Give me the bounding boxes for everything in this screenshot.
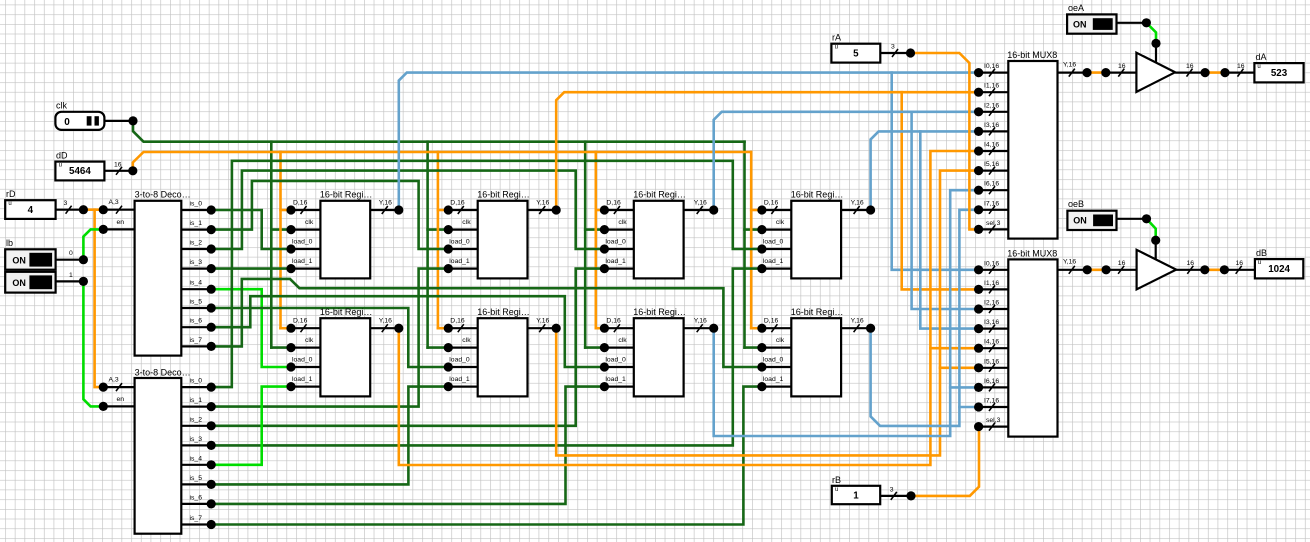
svg-text:load_0: load_0	[449, 239, 470, 246]
wire clk riser column 0	[271, 142, 291, 348]
svg-text:16: 16	[114, 161, 122, 168]
wire MUX2.Y to buffer B	[1058, 269, 1137, 271]
svg-text:u: u	[8, 201, 11, 207]
decoder1 pin stubs	[103, 210, 211, 347]
svg-text:D,16: D,16	[764, 200, 779, 207]
svg-text:load_1: load_1	[605, 258, 626, 265]
wire dD riser column 3	[751, 152, 762, 328]
register R2 16-bit row1 col2	[605, 190, 707, 279]
svg-text:is_1: is_1	[190, 220, 203, 227]
multiplexer U4 16-bit MUX8 bottom	[984, 248, 1076, 436]
register row2 col1 pin stubs	[448, 328, 556, 386]
svg-text:u: u	[1258, 260, 1261, 266]
svg-text:is_4: is_4	[190, 280, 203, 287]
svg-text:is_7: is_7	[190, 515, 203, 522]
svg-text:I3,16: I3,16	[984, 122, 999, 129]
svg-text:is_4: is_4	[190, 455, 203, 462]
svg-text:clk: clk	[462, 219, 471, 226]
svg-text:Y,16: Y,16	[536, 318, 549, 325]
svg-text:I6,16: I6,16	[984, 378, 999, 385]
register R6 16-bit row2 col2	[605, 307, 707, 396]
wire buffer B output to dB	[1176, 269, 1255, 271]
svg-text:rA: rA	[832, 33, 841, 43]
svg-text:16-bit Regi…: 16-bit Regi…	[477, 190, 530, 200]
wire rD 3-bit bus (orange)	[83, 210, 103, 387]
wire lb0 to decoder1 en (lime, value 1)	[83, 229, 103, 259]
register row2 col0 pin stubs	[291, 328, 399, 386]
svg-text:is_0: is_0	[190, 378, 203, 385]
wire R4.Y bus to MUX inputs I4	[399, 151, 979, 465]
svg-text:D,16: D,16	[293, 200, 308, 207]
svg-text:dA: dA	[1256, 52, 1267, 62]
svg-text:I1,16: I1,16	[984, 83, 999, 90]
svg-text:3: 3	[890, 486, 894, 493]
svg-text:clk: clk	[56, 101, 67, 111]
svg-text:Y,16: Y,16	[536, 200, 549, 207]
svg-text:I2,16: I2,16	[984, 102, 999, 109]
switch lb bit0 ON	[5, 238, 83, 270]
svg-text:sel,3: sel,3	[986, 220, 1001, 227]
svg-text:load_1: load_1	[292, 376, 313, 383]
svg-text:Y,16: Y,16	[694, 200, 707, 207]
input rB value 1	[832, 475, 911, 504]
svg-text:16-bit Regi…: 16-bit Regi…	[791, 190, 844, 200]
svg-text:rB: rB	[832, 475, 841, 485]
svg-text:clk: clk	[776, 219, 785, 226]
input dD value 5464	[55, 151, 132, 181]
wire is_6 dec2 to R6.load_1	[211, 387, 604, 504]
svg-text:I7,16: I7,16	[984, 398, 999, 405]
svg-text:u: u	[835, 45, 838, 51]
svg-text:Y,16: Y,16	[379, 200, 392, 207]
svg-text:D,16: D,16	[764, 318, 779, 325]
register row2 col2 pin stubs	[604, 328, 713, 386]
svg-text:Y,16: Y,16	[851, 200, 864, 207]
svg-text:16-bit Regi…: 16-bit Regi…	[477, 307, 530, 317]
svg-text:16-bit MUX8: 16-bit MUX8	[1007, 248, 1057, 258]
svg-text:load_0: load_0	[292, 357, 313, 364]
output dB value 1024	[1255, 248, 1303, 278]
svg-text:16-bit Regi…: 16-bit Regi…	[633, 307, 686, 317]
wire is_2 dec2 to R2.load_1	[211, 269, 604, 426]
svg-text:Y,16: Y,16	[379, 318, 392, 325]
svg-text:load_0: load_0	[763, 239, 784, 246]
svg-text:16: 16	[1236, 260, 1244, 267]
tri-state buffer B	[1118, 250, 1243, 290]
wire dD riser column 1	[438, 152, 448, 328]
svg-text:rD: rD	[6, 189, 16, 199]
svg-text:clk: clk	[618, 219, 627, 226]
svg-text:16-bit Regi…: 16-bit Regi…	[633, 190, 686, 200]
switch oeA ON	[1067, 3, 1116, 34]
svg-text:ON: ON	[1073, 19, 1087, 29]
svg-text:Y,16: Y,16	[694, 318, 707, 325]
switch lb bit1 ON	[5, 272, 83, 293]
svg-text:523: 523	[1271, 68, 1288, 79]
wire dD 16-bit bus (orange)	[133, 152, 751, 171]
svg-text:D,16: D,16	[450, 200, 465, 207]
wire is_1 dec2 to R1.load_1	[211, 269, 448, 407]
svg-text:dD: dD	[56, 151, 68, 161]
svg-text:D,16: D,16	[293, 318, 308, 325]
svg-text:Y,16: Y,16	[851, 318, 864, 325]
svg-text:5: 5	[853, 48, 859, 59]
wire dD riser column 2	[596, 152, 605, 328]
svg-text:5464: 5464	[69, 166, 91, 177]
svg-text:is_7: is_7	[190, 337, 203, 344]
wire is_2 dec1 to R2.load_0 via top bus	[211, 171, 604, 249]
svg-text:is_3: is_3	[190, 259, 203, 266]
svg-text:3-to-8 Deco…: 3-to-8 Deco…	[135, 367, 191, 377]
register row1 col1 pin stubs	[448, 210, 556, 269]
svg-text:is_1: is_1	[190, 397, 203, 404]
wire R1.Y bus to MUX inputs I1	[556, 92, 978, 289]
svg-text:I5,16: I5,16	[984, 161, 999, 168]
svg-text:16-bit Regi…: 16-bit Regi…	[320, 190, 373, 200]
wire clk bus (dark green, value 0)	[133, 121, 745, 142]
register R3 16-bit row1 col3	[763, 190, 864, 279]
svg-text:I1,16: I1,16	[984, 280, 999, 287]
MUX2 input pin stubs	[979, 270, 1009, 427]
svg-text:clk: clk	[776, 337, 785, 344]
svg-text:0: 0	[69, 250, 73, 257]
wire oeA to buffer A enable (lime)	[1117, 23, 1157, 64]
svg-text:load_0: load_0	[605, 357, 626, 364]
register R5 16-bit row2 col1	[449, 307, 549, 396]
input rD value 4	[5, 189, 83, 219]
decoder U1 3-to-8 top	[109, 190, 203, 356]
MUX1 input pin stubs	[979, 73, 1009, 230]
wire lb1 to decoder2 en (lime, value 1)	[83, 281, 103, 406]
svg-text:0: 0	[64, 117, 70, 128]
svg-text:is_3: is_3	[190, 436, 203, 443]
svg-text:load_0: load_0	[292, 239, 313, 246]
svg-text:is_5: is_5	[190, 299, 203, 306]
svg-text:I3,16: I3,16	[984, 319, 999, 326]
register R4 16-bit row2 col0	[292, 307, 392, 396]
wire is_7 dec1 to R7.load_0 via channel	[211, 279, 762, 367]
wire rB 3-bit to MUX2 sel (orange)	[911, 427, 979, 496]
svg-text:A,3: A,3	[109, 377, 119, 384]
register row1 col2 pin stubs	[604, 210, 713, 269]
svg-text:I0,16: I0,16	[984, 260, 999, 267]
wire rA 3-bit to MUX1 sel (orange)	[911, 53, 979, 229]
wire is_4 dec1 to R4.load_0 (lime, active)	[211, 289, 291, 367]
wire is_3 dec1 to R3.load_0 via top bus	[211, 161, 762, 269]
wire buffer A output to dA	[1175, 71, 1254, 73]
svg-text:Y,16: Y,16	[1063, 62, 1076, 69]
register R7 16-bit row2 col3	[763, 307, 864, 396]
input rA value 5	[831, 33, 910, 63]
wire is_0 dec1 to R0.load_0	[211, 210, 291, 249]
svg-text:ON: ON	[12, 278, 26, 288]
svg-text:clk: clk	[305, 337, 314, 344]
svg-text:A,3: A,3	[109, 199, 119, 206]
svg-text:I0,16: I0,16	[984, 63, 999, 70]
svg-text:16-bit MUX8: 16-bit MUX8	[1007, 50, 1057, 60]
wire dD riser column 0	[281, 152, 292, 328]
svg-text:I4,16: I4,16	[984, 142, 999, 149]
svg-text:I6,16: I6,16	[984, 181, 999, 188]
svg-text:3: 3	[64, 200, 68, 207]
wire R7.Y bus to MUX inputs I7	[871, 210, 979, 426]
wire R5.Y bus to MUX inputs I5	[556, 171, 978, 456]
svg-text:u: u	[835, 487, 838, 493]
wire clk riser column 2	[585, 142, 604, 348]
decoder2 pin stubs	[103, 387, 211, 524]
svg-text:sel,3: sel,3	[986, 417, 1001, 424]
wire is_0 dec2 to R0.load_1	[211, 269, 291, 388]
svg-text:1: 1	[853, 490, 859, 501]
output dA value 523	[1254, 52, 1303, 82]
svg-text:oeB: oeB	[1068, 199, 1084, 209]
svg-text:load_0: load_0	[763, 357, 784, 364]
svg-text:load_1: load_1	[449, 376, 470, 383]
svg-text:I2,16: I2,16	[984, 300, 999, 307]
wire is_4 dec2 to R4.load_1 (lime, active)	[211, 387, 291, 465]
decoder U2 3-to-8 bottom	[109, 367, 203, 533]
svg-text:load_1: load_1	[763, 258, 784, 265]
svg-text:is_6: is_6	[190, 494, 203, 501]
svg-text:is_2: is_2	[190, 240, 203, 247]
wire clk riser column 1	[428, 142, 449, 348]
svg-text:3-to-8 Deco…: 3-to-8 Deco…	[135, 190, 191, 200]
wire R0.Y bus to MUX inputs I0	[399, 73, 979, 270]
svg-text:1: 1	[69, 272, 73, 279]
wire is_5 dec2 to R5.load_1	[211, 387, 448, 485]
tri-state buffer A	[1118, 53, 1245, 92]
svg-text:D,16: D,16	[606, 318, 621, 325]
svg-text:3: 3	[891, 44, 895, 51]
switch oeB ON	[1067, 199, 1116, 230]
svg-text:is_0: is_0	[190, 201, 203, 208]
svg-text:load_1: load_1	[449, 258, 470, 265]
svg-text:I7,16: I7,16	[984, 200, 999, 207]
wire is_1 dec1 to R1.load_0 via top bus	[211, 181, 448, 249]
svg-text:load_0: load_0	[605, 239, 626, 246]
svg-text:clk: clk	[305, 219, 314, 226]
register row1 col3 pin stubs	[762, 210, 871, 269]
svg-text:dB: dB	[1256, 248, 1267, 258]
register row1 col0 pin stubs	[291, 210, 399, 269]
wire R2.Y bus to MUX inputs I2	[714, 112, 979, 309]
svg-text:4: 4	[28, 205, 34, 216]
multiplexer U3 16-bit MUX8 top	[984, 50, 1076, 239]
svg-text:D,16: D,16	[450, 318, 465, 325]
svg-text:u: u	[1257, 64, 1260, 70]
register R1 16-bit row1 col1	[449, 190, 549, 279]
svg-text:ON: ON	[12, 255, 26, 265]
svg-text:clk: clk	[618, 337, 627, 344]
svg-text:is_6: is_6	[190, 318, 203, 325]
svg-text:u: u	[59, 163, 62, 169]
svg-text:16-bit Regi…: 16-bit Regi…	[320, 307, 373, 317]
wire is_3 dec2 to R3.load_1	[211, 269, 762, 446]
svg-text:oeA: oeA	[1068, 3, 1084, 13]
svg-text:clk: clk	[462, 337, 471, 344]
wire is_7 dec2 to R7.load_1	[211, 387, 762, 525]
svg-text:ON: ON	[1073, 216, 1087, 226]
svg-text:Y,16: Y,16	[1063, 259, 1076, 266]
svg-text:I4,16: I4,16	[984, 339, 999, 346]
svg-text:lb: lb	[6, 238, 13, 248]
svg-text:load_1: load_1	[763, 376, 784, 383]
wire is_5 dec1 to R5.load_0	[211, 308, 448, 367]
wire is_6 dec1 to R6.load_0 via channel	[211, 296, 604, 367]
svg-text:1024: 1024	[1268, 264, 1290, 275]
svg-text:en: en	[117, 219, 125, 226]
svg-text:16-bit Regi…: 16-bit Regi…	[791, 307, 844, 317]
svg-text:D,16: D,16	[606, 200, 621, 207]
clock input clk	[55, 101, 133, 130]
wire clk riser column 3	[745, 142, 762, 348]
svg-text:is_5: is_5	[190, 475, 203, 482]
wire MUX1.Y to buffer A (black stub + orange segment)	[1058, 71, 1137, 73]
svg-text:load_1: load_1	[292, 258, 313, 265]
register R0 16-bit row1 col0	[292, 190, 392, 279]
svg-text:load_0: load_0	[449, 357, 470, 364]
svg-text:I5,16: I5,16	[984, 358, 999, 365]
svg-text:is_2: is_2	[190, 416, 203, 423]
svg-text:en: en	[117, 396, 125, 403]
svg-text:load_1: load_1	[605, 376, 626, 383]
wire R3.Y bus to MUX inputs I3	[871, 131, 979, 328]
register row2 col3 pin stubs	[762, 328, 871, 386]
wire R6.Y bus to MUX inputs I6	[714, 190, 979, 436]
wire oeB to buffer B enable (lime)	[1117, 219, 1156, 261]
